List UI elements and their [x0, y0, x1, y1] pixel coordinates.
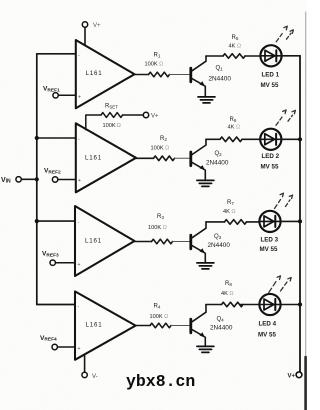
LED4 MV55: [258, 294, 281, 339]
wire: R3 to Q3 base: [173, 241, 190, 243]
svg-text:R2: R2: [160, 136, 167, 142]
wire: U1 output to R1: [135, 74, 149, 76]
svg-text:MV 55: MV 55: [261, 163, 279, 170]
wire: LED4 to rail: [281, 304, 300, 306]
resistor R3 100k: [148, 214, 173, 244]
ground (Q1 emitter): [198, 97, 215, 103]
wire: Q1 collector line: [206, 55, 223, 57]
svg-text:Q1: Q1: [216, 66, 224, 72]
svg-text:2N4400: 2N4400: [209, 75, 232, 82]
svg-text:100KΩ: 100KΩ: [150, 314, 169, 320]
resistor R4 100k: [150, 304, 172, 328]
svg-text:Q3: Q3: [214, 234, 222, 240]
wire: LED3 to rail: [281, 220, 300, 222]
svg-text:100KΩ: 100KΩ: [103, 123, 121, 129]
resistor R8 4k: [221, 281, 243, 307]
svg-text:V+: V+: [288, 373, 296, 379]
LED3 light rays: [275, 193, 293, 208]
svg-text:R5: R5: [232, 35, 239, 41]
wire: VIN bus vertical: [36, 54, 38, 305]
wire: bus to U3 +input: [37, 220, 75, 222]
svg-text:LED 2: LED 2: [262, 153, 280, 160]
terminal V+ of RSET: [143, 112, 159, 119]
wire: Q2 collector line: [206, 138, 220, 140]
svg-text:L161: L161: [86, 70, 103, 77]
transistor Q2 2N4400: [191, 139, 229, 180]
svg-text:R7: R7: [227, 200, 234, 206]
transistor Q3 2N4400: [191, 222, 231, 263]
transistor Q4 2N4400: [191, 305, 233, 347]
svg-text:LED 3: LED 3: [261, 236, 279, 243]
node: junction bus/U3: [35, 219, 39, 223]
resistor RSET 100k: [86, 104, 144, 130]
op-amp U2 (L161): [76, 123, 136, 192]
svg-text:2N4400: 2N4400: [208, 242, 231, 249]
svg-text:R1: R1: [154, 53, 161, 59]
wire: LED1 to rail: [282, 55, 300, 57]
svg-text:Q4: Q4: [217, 317, 225, 323]
wire: R4 to Q4 base: [171, 325, 189, 327]
svg-text:100KΩ: 100KΩ: [145, 62, 164, 68]
svg-text:2N4400: 2N4400: [210, 325, 233, 332]
terminal V- of U4: [82, 354, 98, 380]
ground (Q4 emitter): [197, 346, 214, 352]
ground (Q3 emitter): [197, 263, 214, 269]
svg-text:MV 55: MV 55: [261, 82, 279, 89]
svg-text:Q2: Q2: [215, 151, 223, 157]
terminal V+ of U1: [82, 22, 101, 46]
node: rail/LED3: [298, 219, 302, 223]
svg-text:V+: V+: [151, 114, 159, 120]
svg-text:4KΩ: 4KΩ: [221, 291, 234, 297]
wire: U4 output to R4: [136, 325, 150, 327]
svg-text:V-: V-: [92, 374, 98, 380]
svg-text:100KΩ: 100KΩ: [151, 145, 170, 151]
op-amp U3 (L161): [75, 206, 135, 276]
svg-text:LED 4: LED 4: [259, 321, 277, 328]
svg-text:RSET: RSET: [105, 104, 118, 110]
wire: bus to U2 +input: [37, 137, 76, 139]
wire: LED2 to rail: [281, 138, 300, 140]
terminal VREF1: [43, 86, 76, 99]
op-amp U1 (L161): [76, 40, 135, 108]
wire: R7 to LED3: [247, 221, 260, 223]
wire: U2 output to R2: [136, 157, 154, 159]
svg-text:R6: R6: [230, 117, 237, 123]
LED2 light rays: [276, 110, 295, 125]
resistor R6 4k: [220, 117, 242, 142]
wire: R6 to LED2: [242, 138, 260, 140]
svg-text:+: +: [78, 95, 81, 101]
svg-text:+: +: [78, 178, 81, 184]
terminal V+ bottom: [288, 372, 302, 379]
svg-text:VIN: VIN: [1, 177, 11, 185]
svg-text:MV 55: MV 55: [260, 246, 278, 253]
wire: Q3 collector line: [206, 221, 225, 223]
transistor Q1 2N4400: [191, 56, 232, 97]
svg-text:4KΩ: 4KΩ: [229, 44, 242, 50]
svg-text:LED 1: LED 1: [262, 71, 280, 78]
svg-text:R8: R8: [225, 281, 232, 287]
LED1 MV55: [260, 45, 281, 89]
svg-text:100KΩ: 100KΩ: [148, 225, 167, 231]
node: junction bus/U2: [35, 136, 39, 140]
wire: R5 to LED1: [245, 55, 260, 57]
terminal VREF4: [40, 335, 75, 350]
terminal VREF2: [44, 168, 76, 183]
resistor R1 100k: [145, 53, 170, 77]
wire: R1 to Q1 base: [170, 74, 190, 76]
svg-text:+: +: [78, 262, 81, 268]
LED2 MV55: [260, 129, 281, 171]
ground (Q2 emitter): [197, 180, 214, 186]
wire: Q4 collector line: [206, 304, 222, 306]
wire: R8 to LED4: [240, 304, 259, 306]
LED4 light rays: [269, 276, 291, 293]
svg-text:4KΩ: 4KΩ: [223, 209, 236, 215]
LED3 MV55: [259, 211, 280, 253]
svg-text:2N4400: 2N4400: [206, 159, 229, 166]
svg-text:V+: V+: [93, 23, 101, 29]
op-amp U4 (L161): [75, 291, 136, 359]
svg-text:L161: L161: [85, 238, 102, 245]
wire: R2 to Q2 base: [175, 157, 190, 159]
svg-text:+: +: [78, 346, 81, 352]
node: rail/LED2: [298, 137, 302, 141]
resistor R5 4k: [223, 35, 245, 58]
right rail V+: [299, 56, 301, 372]
wire: U3 output to R3: [135, 241, 152, 243]
node: junction bus/VIN: [35, 177, 39, 181]
resistor R7 4k: [223, 200, 246, 224]
svg-text:4KΩ: 4KΩ: [228, 125, 241, 131]
scan right edge: [305, 12, 307, 410]
watermark ybx8.cn: [126, 372, 195, 391]
svg-text:L161: L161: [86, 322, 103, 329]
wire: bus to U1 +input: [37, 53, 76, 55]
svg-text:ybx8.cn: ybx8.cn: [126, 372, 195, 391]
svg-text:R4: R4: [154, 304, 161, 310]
wire: bus to U4 +input: [37, 304, 75, 306]
node: rail/LED4: [298, 302, 302, 306]
resistor R2 100k: [151, 136, 175, 161]
terminal VIN: [1, 177, 37, 185]
LED1 light rays: [276, 26, 293, 42]
svg-text:L161: L161: [85, 155, 102, 162]
svg-text:R3: R3: [157, 214, 164, 220]
svg-text:MV 55: MV 55: [258, 332, 276, 339]
terminal VREF3: [42, 251, 75, 266]
